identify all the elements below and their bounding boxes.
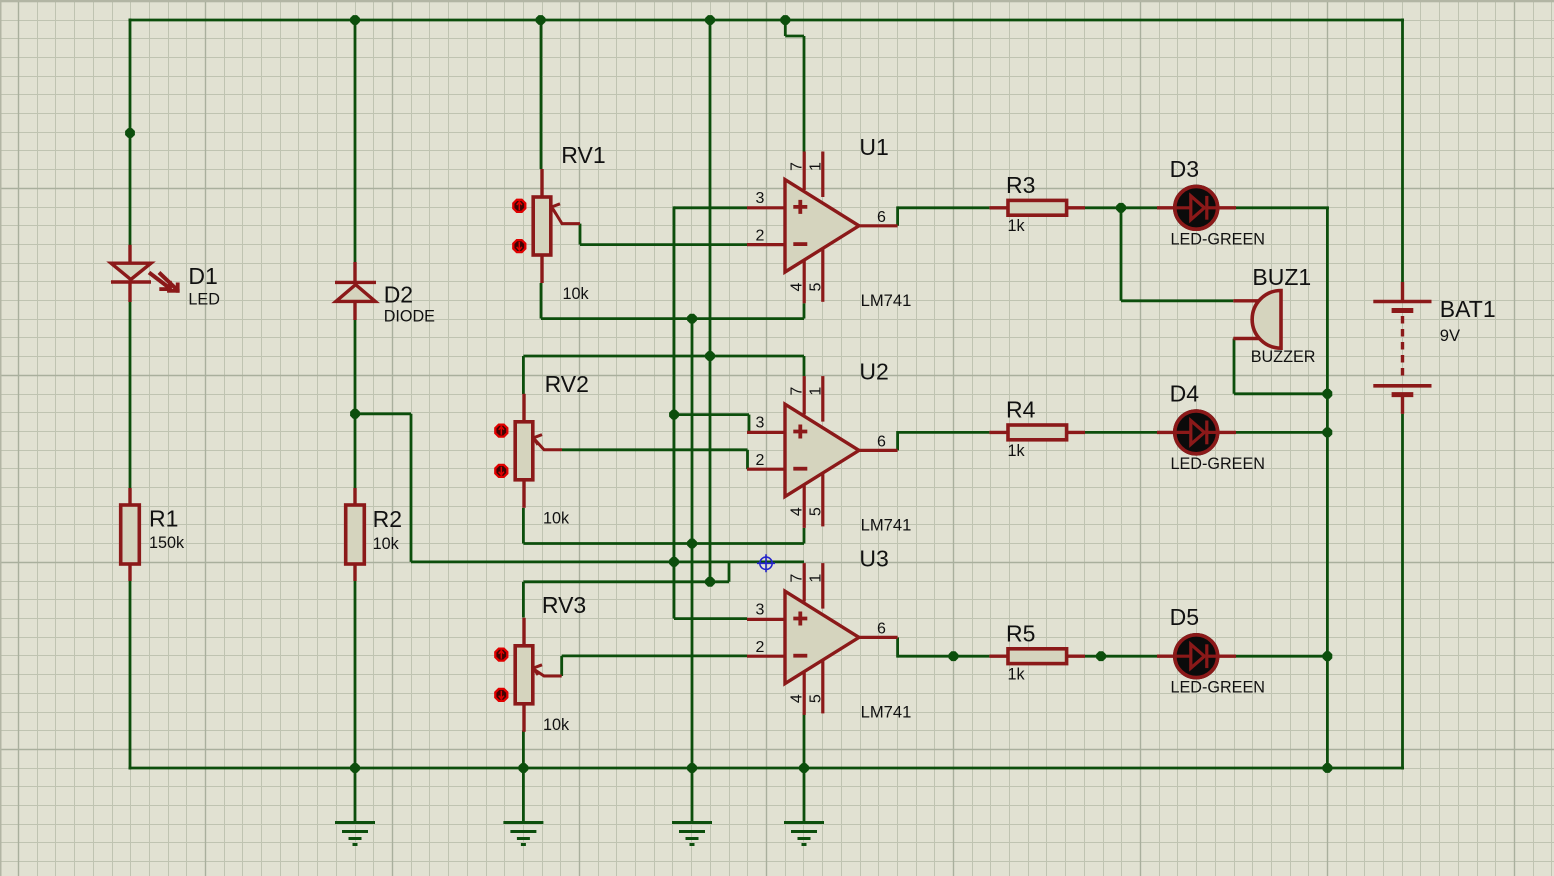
svg-text:5: 5 bbox=[807, 694, 824, 703]
svg-text:1: 1 bbox=[807, 162, 824, 171]
svg-text:7: 7 bbox=[788, 574, 805, 583]
svg-text:7: 7 bbox=[788, 387, 805, 396]
svg-text:R4: R4 bbox=[1006, 397, 1036, 423]
svg-text:LED-GREEN: LED-GREEN bbox=[1171, 455, 1265, 473]
svg-text:6: 6 bbox=[877, 434, 886, 451]
svg-text:R5: R5 bbox=[1006, 620, 1035, 646]
svg-text:3: 3 bbox=[756, 190, 765, 207]
svg-text:R3: R3 bbox=[1006, 172, 1035, 198]
svg-text:LED-GREEN: LED-GREEN bbox=[1171, 230, 1265, 248]
svg-text:D5: D5 bbox=[1170, 604, 1199, 630]
svg-text:150k: 150k bbox=[149, 534, 185, 552]
svg-text:LM741: LM741 bbox=[861, 516, 912, 535]
svg-text:LM741: LM741 bbox=[861, 291, 912, 310]
svg-text:4: 4 bbox=[788, 507, 805, 516]
svg-text:4: 4 bbox=[788, 694, 805, 703]
svg-text:R2: R2 bbox=[373, 506, 402, 532]
svg-text:DIODE: DIODE bbox=[384, 308, 435, 326]
svg-text:RV3: RV3 bbox=[542, 592, 586, 618]
svg-text:2: 2 bbox=[756, 227, 765, 244]
svg-text:6: 6 bbox=[877, 209, 886, 226]
svg-text:RV2: RV2 bbox=[545, 371, 589, 397]
svg-text:5: 5 bbox=[807, 283, 824, 292]
svg-text:U2: U2 bbox=[859, 359, 888, 385]
svg-text:BAT1: BAT1 bbox=[1440, 296, 1496, 322]
svg-text:9V: 9V bbox=[1440, 326, 1460, 345]
svg-text:BUZ1: BUZ1 bbox=[1252, 264, 1311, 290]
svg-text:BUZZER: BUZZER bbox=[1251, 348, 1316, 366]
svg-text:RV1: RV1 bbox=[561, 142, 605, 168]
svg-text:1k: 1k bbox=[1008, 217, 1026, 235]
svg-text:D2: D2 bbox=[384, 282, 413, 308]
svg-text:10k: 10k bbox=[543, 509, 570, 527]
svg-text:R1: R1 bbox=[149, 506, 178, 532]
svg-text:D4: D4 bbox=[1170, 380, 1200, 406]
svg-text:3: 3 bbox=[756, 415, 765, 432]
svg-text:D1: D1 bbox=[188, 263, 217, 289]
svg-text:U3: U3 bbox=[859, 546, 888, 572]
svg-text:U1: U1 bbox=[859, 134, 888, 160]
svg-text:1k: 1k bbox=[1008, 442, 1026, 460]
svg-text:7: 7 bbox=[788, 162, 805, 171]
svg-text:4: 4 bbox=[788, 283, 805, 292]
svg-text:6: 6 bbox=[877, 621, 886, 638]
svg-text:1: 1 bbox=[807, 574, 824, 583]
svg-text:2: 2 bbox=[756, 639, 765, 656]
svg-text:LED: LED bbox=[188, 291, 220, 309]
svg-text:3: 3 bbox=[756, 602, 765, 619]
svg-text:1: 1 bbox=[807, 387, 824, 396]
svg-text:LM741: LM741 bbox=[861, 703, 912, 722]
svg-text:10k: 10k bbox=[543, 716, 570, 734]
svg-text:LED-GREEN: LED-GREEN bbox=[1171, 679, 1265, 697]
svg-text:1k: 1k bbox=[1008, 666, 1026, 684]
svg-text:5: 5 bbox=[807, 507, 824, 516]
svg-text:2: 2 bbox=[756, 452, 765, 469]
svg-text:10k: 10k bbox=[563, 285, 590, 303]
svg-text:D3: D3 bbox=[1170, 156, 1199, 182]
svg-text:10k: 10k bbox=[373, 535, 400, 553]
